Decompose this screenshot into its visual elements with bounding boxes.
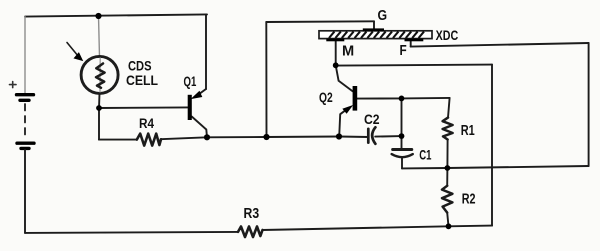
wire through photocell xyxy=(99,58,101,92)
wire M electrode drop xyxy=(335,41,337,65)
node Q1 collector xyxy=(204,134,210,140)
wire R1 bottom lead xyxy=(446,140,448,169)
transducer M electrode bar xyxy=(326,39,344,42)
svg-text:C2: C2 xyxy=(364,112,380,127)
node M return xyxy=(333,62,339,68)
node R2 bottom xyxy=(446,223,452,229)
wire R1 top lead xyxy=(448,98,450,118)
node top of CDS xyxy=(95,13,101,19)
transistor Q1 emitter lead xyxy=(198,89,207,95)
battery B1 cell 1 long plate xyxy=(17,93,34,96)
wire CDS bottom lead xyxy=(98,94,101,109)
svg-text:C1: C1 xyxy=(419,147,431,163)
photocell light arrowhead xyxy=(74,53,82,61)
wire bottom rail left xyxy=(25,232,238,233)
wire CDS node drop xyxy=(98,108,100,140)
battery B1 cell 2 long plate xyxy=(17,141,34,144)
node Q2 emitter xyxy=(336,133,342,139)
resistor R4 xyxy=(137,134,161,146)
transistor Q1 collector lead xyxy=(192,117,207,138)
wire F feedback horizontal xyxy=(411,43,589,47)
wire G drop to electrode xyxy=(373,21,375,29)
capacitor C1 top plate xyxy=(393,148,412,151)
resistor R1 xyxy=(443,118,453,140)
svg-text:XDC: XDC xyxy=(436,27,459,43)
battery B1 plus label xyxy=(10,82,17,88)
wire R2 bottom lead xyxy=(447,213,448,227)
wire Q2 base line xyxy=(357,97,449,100)
transistor Q2 base bar xyxy=(353,86,358,111)
transducer F electrode bar xyxy=(405,39,424,42)
wire Q2 collector lead xyxy=(336,65,353,91)
wire F electrode drop xyxy=(410,41,412,47)
wire Q1 base line xyxy=(99,106,188,109)
wire R4 right xyxy=(161,137,207,139)
capacitor C1 curved plate xyxy=(392,154,413,157)
battery B1 cell 2 short plate xyxy=(21,147,29,150)
wire feedback bottom line xyxy=(402,166,589,168)
battery B1 cell 1 short plate xyxy=(20,99,29,102)
node CDS bottom xyxy=(96,105,102,111)
transducer XDC body xyxy=(319,31,432,39)
svg-text:R2: R2 xyxy=(462,192,476,208)
wire bottom rail right xyxy=(263,226,493,230)
wire F feedback right riser xyxy=(588,43,590,166)
wire C2 right to column xyxy=(375,135,401,138)
wire mid line to C2 xyxy=(339,136,368,139)
transducer G electrode bar xyxy=(363,28,384,31)
wire M return horizontal xyxy=(336,65,492,66)
resistor R3 xyxy=(238,227,263,238)
svg-text:Q2: Q2 xyxy=(319,90,333,105)
svg-text:R4: R4 xyxy=(139,116,154,131)
node G riser xyxy=(263,134,269,140)
wire battery top drop xyxy=(24,17,26,93)
svg-text:F: F xyxy=(400,43,407,59)
wire Q1 emitter riser xyxy=(205,14,207,89)
wire battery dashed middle xyxy=(24,104,26,139)
photocell light arrow shaft xyxy=(67,43,79,57)
capacitor C2 curved plate xyxy=(372,127,375,144)
svg-text:CELL: CELL xyxy=(126,73,158,88)
wire CDS top lead xyxy=(99,16,100,57)
svg-text:R3: R3 xyxy=(244,206,260,222)
wire G riser xyxy=(265,22,267,137)
photocell CDS zigzag xyxy=(96,64,105,88)
wire R2 top lead xyxy=(446,168,448,186)
wire top rail xyxy=(25,14,207,16)
wire mid line Q1 collector to G junction xyxy=(207,136,267,138)
transistor Q1 base bar xyxy=(188,95,192,120)
wire mid line to Q2 emitter junction xyxy=(267,136,340,139)
wire G top horizontal xyxy=(266,20,374,23)
node Q2 base xyxy=(399,96,405,102)
wire base column down xyxy=(401,98,403,148)
svg-text:CDS: CDS xyxy=(128,59,152,74)
wire C1 bottom lead xyxy=(401,158,403,168)
wire right return riser (M to bottom rail) xyxy=(491,65,493,226)
transistor Q1 emitter arrowhead xyxy=(192,92,201,99)
svg-text:R1: R1 xyxy=(461,123,475,139)
resistor R2 xyxy=(442,186,452,213)
transistor Q2 emitter lead xyxy=(339,108,349,137)
transistor Q2 emitter arrowhead xyxy=(343,106,352,113)
photocell CDS circle xyxy=(81,56,118,93)
svg-text:M: M xyxy=(342,44,354,60)
node C2 C1 junction xyxy=(399,133,405,139)
node R1 R2 junction xyxy=(445,165,451,171)
svg-text:G: G xyxy=(378,8,388,24)
wire R4 left xyxy=(99,139,137,141)
wire battery bottom drop xyxy=(24,150,26,233)
svg-text:Q1: Q1 xyxy=(184,74,197,89)
capacitor C2 straight plate xyxy=(367,129,370,143)
